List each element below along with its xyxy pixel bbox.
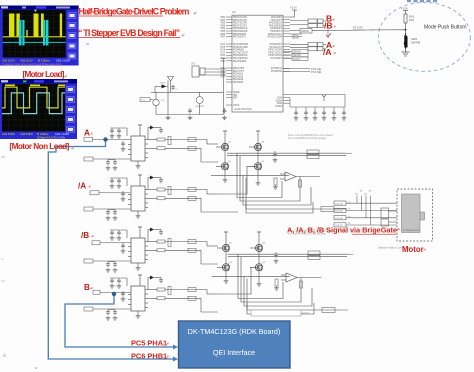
blue QEI wire A [48, 140, 173, 360]
svg-text:PB3/T3CCP1: PB3/T3CCP1 [233, 25, 248, 27]
svg-text:[Motor Non Load]: [Motor Non Load] [9, 142, 69, 151]
bottom rail [156, 114, 223, 116]
svg-text:VDD: VDD [277, 98, 282, 100]
motor connector wires [334, 196, 397, 228]
svg-text:SW-PB: SW-PB [411, 41, 420, 45]
svg-text:PE4/AIN9: PE4/AIN9 [233, 78, 244, 81]
svg-text:PA4/SSIRX: PA4/SSIRX [270, 27, 282, 30]
svg-text:SEN0A: SEN0A [293, 51, 301, 54]
ground under switch [402, 48, 410, 57]
svg-text:HIB: HIB [233, 95, 237, 97]
net label PA6 input A [84, 137, 131, 141]
svg-text:from stepPER3103 to EVB packag: from stepPER3103 to EVB package [288, 137, 327, 140]
cap C32 [223, 108, 227, 114]
sense net labels [283, 50, 308, 61]
caps row below MCU [283, 94, 345, 110]
svg-text:PD0/SSI3CLK: PD0/SSI3CLK [233, 55, 248, 57]
+3.3V flag [403, 11, 408, 15]
resistor pack RN2 [290, 43, 326, 51]
wire R16 to node [405, 23, 407, 33]
left vertical [167, 81, 169, 115]
svg-text:PA2/SSICLK: PA2/SSICLK [269, 22, 282, 25]
svg-text:41TM-B00-D1JP: 41TM-B00-D1JP [403, 230, 420, 232]
power tick on rail [322, 95, 326, 101]
svg-text:DMOD: DMOD [301, 29, 309, 33]
svg-text:PA5/SSITX: PA5/SSITX [271, 30, 283, 33]
clipped blue caption [407, 0, 437, 2]
svg-text:20-May-14 13:07: 20-May-14 13:07 [37, 136, 56, 139]
jumper header J2 [192, 66, 226, 77]
node junction [405, 29, 407, 31]
svg-text:PA6/I2C1SCL: PA6/I2C1SCL [268, 33, 283, 36]
svg-text:A: A [84, 129, 90, 138]
MCU pin stubs right [283, 17, 290, 103]
svg-text:/B: /B [81, 231, 89, 240]
stray paragraph marks [3, 355, 6, 357]
net stub dashes A [346, 152, 352, 154]
gate driver U7 (phase B) [84, 275, 218, 320]
svg-text:“ TI Stepper EVB Design Fail”: “ TI Stepper EVB Design Fail” [78, 28, 180, 38]
svg-text:10.019Hz: 10.019Hz [55, 136, 66, 139]
svg-text:PB7: PB7 [221, 37, 226, 39]
svg-text:CH1 5.00V: CH1 5.00V [2, 132, 15, 136]
svg-text:PC5/PHA1: PC5/PHA1 [271, 67, 283, 70]
svg-text:PG0/U2RX: PG0/U2RX [271, 58, 283, 60]
svg-text:OUT1B: OUT1B [335, 211, 343, 213]
return mark h2 [182, 34, 184, 37]
svg-text:/B: /B [324, 21, 333, 31]
MCU pin stubs left [226, 17, 232, 105]
svg-text:PB7/SSI2TX: PB7/SSI2TX [233, 37, 246, 39]
svg-text:PC6: PC6 [221, 50, 226, 52]
gate driver U6 (phase /B) [84, 227, 218, 272]
svg-text:PD0: PD0 [221, 55, 226, 57]
cap C30 [171, 85, 175, 91]
transistor Q2 [196, 97, 203, 104]
MCU pin name texture left [233, 17, 249, 107]
svg-text:PE0/U7RX: PE0/U7RX [233, 68, 245, 70]
net label PB4 input /B [92, 241, 131, 245]
oscilloscope capture 1 (motor load) [0, 6, 79, 66]
svg-text:PA1/U0TX: PA1/U0TX [271, 19, 282, 22]
net label DMOD [290, 29, 370, 34]
svg-text:PB5: PB5 [221, 31, 226, 33]
svg-text:PD2/SSI3RX: PD2/SSI3RX [233, 61, 247, 63]
gate route /A to bridge2 [218, 166, 254, 212]
svg-text:PB4: PB4 [221, 28, 226, 30]
svg-text:PB6/SSI2RX: PB6/SSI2RX [233, 34, 247, 36]
svg-text:PB6: PB6 [221, 34, 226, 36]
svg-text:PB5/SSI2FSS: PB5/SSI2FSS [233, 31, 248, 33]
wire into ellipse [370, 29, 406, 31]
svg-text:PF1/U1CTS: PF1/U1CTS [270, 47, 283, 49]
svg-text:PC6/PHB1: PC6/PHB1 [233, 50, 245, 52]
svg-text:PB3: PB3 [221, 25, 226, 27]
svg-text:Q2N2222: Q2N2222 [195, 106, 205, 108]
power supply circuit [140, 59, 225, 115]
svg-text:ET17/R: ET17/R [353, 26, 362, 30]
net label box above QEI box [251, 310, 301, 316]
gate driver U5 (phase /A) [84, 175, 218, 220]
svg-text:PC6 QEI: PC6 QEI [311, 70, 322, 74]
svg-text:PC7: PC7 [221, 52, 226, 54]
svg-text:PC4: PC4 [221, 44, 226, 46]
svg-text:PB0: PB0 [221, 17, 226, 19]
MCU pin labels outside left [221, 17, 226, 78]
oscilloscope capture 2 (motor non load) [0, 79, 77, 139]
svg-text:PB1/T2CCP1: PB1/T2CCP1 [233, 20, 248, 22]
svg-text:PE3/AIN0: PE3/AIN0 [233, 75, 244, 78]
right vertical [222, 92, 224, 114]
svg-text:RST: RST [233, 98, 238, 100]
svg-text:PC6/PHB1: PC6/PHB1 [271, 71, 283, 73]
svg-text:PC5/U4TX/M0: PC5/U4TX/M0 [233, 47, 249, 49]
svg-text:PB2: PB2 [221, 23, 226, 25]
svg-text:OUT2A: OUT2A [335, 217, 343, 220]
svg-text:PB6/A: PB6/A [292, 34, 299, 37]
resistor pack RN1 [290, 19, 326, 28]
arrow head B [173, 345, 178, 350]
svg-text:B: B [84, 283, 90, 292]
svg-text:PC5: PC5 [221, 47, 226, 49]
svg-text:PC7/WT1CCP: PC7/WT1CCP [233, 52, 248, 54]
resistor R16 [404, 14, 407, 23]
svg-text:JP2: JP2 [191, 63, 196, 66]
svg-text:WAKE: WAKE [233, 91, 240, 94]
ground left leg [166, 116, 171, 120]
svg-text:OSC0: OSC0 [233, 105, 240, 107]
supply tick top right [221, 58, 225, 60]
junction dot A [103, 137, 107, 141]
motor body [402, 194, 421, 233]
cap C31 [188, 108, 192, 114]
svg-text:GND: GND [277, 103, 282, 105]
svg-text:Half-BridgeGate-DriveIC Proble: Half-BridgeGate-DriveIC Problem [79, 7, 190, 17]
MCU pin name texture right [268, 16, 283, 108]
QEI wires [283, 69, 310, 72]
gate driver U4 (phase A) [84, 125, 218, 170]
stray mark [86, 43, 89, 45]
svg-text:PA7/I2C1SDA: PA7/I2C1SDA [268, 36, 283, 39]
svg-text:PE1/U7TX: PE1/U7TX [233, 71, 244, 73]
svg-text:QEI Interface: QEI Interface [213, 348, 255, 357]
MCU U1 [232, 15, 283, 112]
red check mark [326, 33, 331, 37]
svg-text:PA3/SSIFSS: PA3/SSIFSS [269, 24, 282, 27]
return mark [65, 75, 67, 78]
svg-text:VDDA: VDDA [276, 99, 283, 102]
transistor Q3 [153, 99, 159, 105]
svg-text:CH2 5.00V: CH2 5.00V [20, 132, 33, 136]
gate route B to bridge2 [218, 267, 256, 294]
svg-text:/A: /A [323, 47, 332, 57]
svg-text:PB2/T3CCP0: PB2/T3CCP0 [233, 23, 248, 25]
svg-text:PE5/AIN8: PE5/AIN8 [233, 81, 244, 84]
svg-text:PF0/U1RTS: PF0/U1RTS [270, 44, 283, 46]
svg-text:+3.3V: +3.3V [401, 7, 408, 11]
svg-text:PB1: PB1 [221, 20, 226, 22]
svg-text:PB0/T2CCP0: PB0/T2CCP0 [233, 17, 248, 19]
svg-text:TI stepper motor drive A and /: TI stepper motor drive A and /A and Phas… [2, 63, 62, 66]
svg-text:/A: /A [78, 182, 86, 191]
svg-text:PA0/U0RX: PA0/U0RX [271, 16, 282, 19]
top rail [151, 91, 223, 93]
svg-text:Motor: Motor [402, 245, 424, 254]
net label PA7 input /A [90, 191, 130, 195]
svg-text:PC5 PHA1: PC5 PHA1 [131, 339, 167, 348]
svg-text:A, /A, B, /B Signal via Bri: A, /A, B, /B Signal via BrigeGate [287, 226, 397, 235]
decoupling caps [294, 110, 298, 116]
net stub dashes B [347, 253, 353, 255]
svg-text:OUT1A: OUT1A [335, 202, 343, 205]
power flag above MCU [290, 10, 297, 17]
arrow head A [173, 357, 178, 362]
svg-text:PF4/T2CCP0: PF4/T2CCP0 [268, 55, 282, 57]
junction dot B [112, 292, 116, 296]
top ground triangle [168, 77, 174, 82]
svg-text:PF2/T1CCP0: PF2/T1CCP0 [268, 50, 282, 52]
blue QEI wire B [65, 294, 173, 347]
mode push button ellipse [378, 2, 470, 71]
switch SW2 [404, 33, 407, 49]
svg-text:PC6 PHB1: PC6 PHB1 [131, 352, 167, 361]
svg-text:SEN0B: SEN0B [293, 54, 301, 57]
svg-text:Mode Push Button\: Mode Push Button\ [424, 25, 467, 31]
return mark h1 [194, 12, 196, 15]
svg-text:+3.3V: +3.3V [290, 6, 297, 10]
diode D5 [162, 84, 167, 88]
svg-text:PC4/U4RX/M0: PC4/U4RX/M0 [233, 44, 249, 46]
svg-text:SS24: SS24 [160, 83, 166, 85]
svg-text:FAULT: FAULT [293, 58, 301, 61]
return mark [72, 147, 74, 150]
net label TP1 [140, 98, 150, 102]
svg-text:[Motor Load]: [Motor Load] [23, 70, 65, 79]
svg-text:10K: 10K [409, 18, 414, 22]
svg-text:PB7/B: PB7/B [292, 38, 299, 40]
svg-text:PF3/T1CCP1: PF3/T1CCP1 [268, 52, 282, 54]
svg-text:PB4/SSI2CLK: PB4/SSI2CLK [233, 28, 248, 30]
svg-text:PE2/AIN1: PE2/AIN1 [233, 73, 244, 76]
QEI interface box [179, 321, 291, 368]
svg-text:DK-TM4C123G (RDK Board): DK-TM4C123G (RDK Board) [188, 327, 281, 336]
svg-text:GNDA: GNDA [275, 105, 282, 108]
svg-text:LM4F120H5QR: LM4F120H5QR [234, 108, 252, 111]
half-bridge B output [212, 232, 347, 314]
motor connector dashed box [397, 189, 433, 241]
short nets below [290, 29, 328, 38]
svg-text:PD1/SSI3FSS: PD1/SSI3FSS [233, 58, 248, 60]
half-bridge A output [211, 131, 346, 213]
svg-text:U3: U3 [232, 10, 236, 14]
net label PB5 input B [93, 290, 131, 294]
